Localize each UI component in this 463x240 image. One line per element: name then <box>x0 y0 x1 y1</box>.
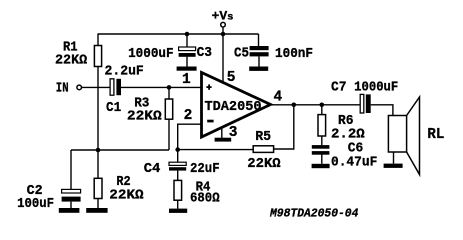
resistor R5 <box>253 146 273 153</box>
capacitor C6 <box>312 145 330 155</box>
node junction C3 on rail <box>185 32 190 37</box>
wire pin3 stub <box>221 125 223 138</box>
svg-text:C7: C7 <box>331 80 347 96</box>
resistor R4 <box>174 180 182 200</box>
svg-text:1000uF: 1000uF <box>354 80 398 96</box>
wire pin2 to feedback node <box>178 124 202 149</box>
wire R2 branch <box>97 150 99 178</box>
svg-text:100uF: 100uF <box>17 196 54 212</box>
resistor R2 <box>94 178 102 198</box>
node junction bias R1/R2 <box>96 148 101 153</box>
svg-text:4: 4 <box>274 90 283 106</box>
node junction C1/R3/pin1 <box>167 85 172 90</box>
speaker RL box <box>388 116 406 153</box>
svg-text:RL: RL <box>427 126 444 143</box>
capacitor C3 <box>179 47 196 57</box>
wire R2 to ground <box>97 199 99 209</box>
wire C5 branch from rail <box>258 34 260 46</box>
wire C3 branch vertical <box>186 34 188 47</box>
wire R5 right to output node <box>274 105 294 149</box>
ground below C2 <box>59 208 80 213</box>
svg-text:C4: C4 <box>144 161 161 177</box>
capacitor C4 <box>169 162 186 170</box>
ground pin3 <box>215 138 232 142</box>
svg-text:M98TDA2050-04: M98TDA2050-04 <box>269 207 358 221</box>
ground below C5 <box>249 67 268 71</box>
wire feedback node to R5 <box>178 149 254 151</box>
svg-text:1000uF: 1000uF <box>128 46 174 62</box>
svg-text:1: 1 <box>182 72 191 88</box>
svg-text:C5: C5 <box>234 45 249 61</box>
svg-text:0.47uF: 0.47uF <box>331 154 377 170</box>
wire R1 top <box>97 34 99 46</box>
svg-text:22KΩ: 22KΩ <box>55 53 88 69</box>
wire R3 top stub <box>168 87 170 99</box>
svg-text:2: 2 <box>184 108 193 124</box>
wire C3 to ground <box>186 57 188 67</box>
op-amp minus input marker <box>207 120 213 123</box>
svg-text:TDA2050: TDA2050 <box>205 100 262 115</box>
wire bias node horizontal <box>71 149 169 151</box>
svg-text:680Ω: 680Ω <box>190 191 220 207</box>
wire R6 to C6 <box>321 136 323 145</box>
svg-text:+Vs: +Vs <box>212 8 234 23</box>
svg-text:C1: C1 <box>106 100 121 116</box>
terminal IN <box>77 85 82 90</box>
svg-text:2.2uF: 2.2uF <box>105 64 144 80</box>
wire R4 to ground <box>177 200 179 209</box>
op-amp U1 TDA2050 <box>202 73 271 138</box>
ground below C6 <box>312 164 330 168</box>
svg-text:22KΩ: 22KΩ <box>247 156 281 172</box>
wire +Vs stub <box>222 27 224 34</box>
wire feedback node down to C4 <box>177 150 179 163</box>
ground below speaker <box>384 164 403 168</box>
wire C2 to ground <box>70 202 72 209</box>
wire C6 to ground <box>321 154 323 163</box>
op-amp plus input marker <box>206 84 211 89</box>
wire C2 branch <box>70 150 72 189</box>
capacitor C5 <box>250 46 269 56</box>
wire C4 to R4 <box>177 171 179 181</box>
svg-text:100nF: 100nF <box>275 46 313 62</box>
node junction pin2/C4/R5 <box>175 147 180 152</box>
svg-text:5: 5 <box>227 70 236 86</box>
resistor R6 <box>318 115 326 136</box>
wire C7 to speaker <box>371 105 393 116</box>
wire output horizontal <box>268 104 360 106</box>
terminal +Vs <box>221 22 226 27</box>
wire C1 to op-amp pin1 <box>121 86 202 88</box>
wire C5 to ground <box>258 56 260 66</box>
node junction at +Vs on rail <box>221 32 226 37</box>
resistor R3 <box>165 99 172 119</box>
speaker RL horn <box>407 97 420 175</box>
resistor R1 <box>94 46 101 67</box>
svg-text:22uF: 22uF <box>190 161 220 177</box>
ground below C3 <box>177 67 197 71</box>
svg-text:C3: C3 <box>197 45 212 61</box>
wire speaker to ground <box>393 152 395 164</box>
wire IN to C1 <box>82 86 111 88</box>
node junction output/R6 <box>320 103 325 108</box>
ground below R4 <box>169 209 187 213</box>
capacitor C1 <box>110 79 121 95</box>
capacitor C2 <box>62 189 81 201</box>
capacitor C7 <box>360 94 370 113</box>
wire R1 bottom to bias node (crosses IN line) <box>97 67 99 151</box>
svg-text:22KΩ: 22KΩ <box>127 109 162 125</box>
svg-text:22KΩ: 22KΩ <box>109 188 144 204</box>
wire R3 bottom <box>168 119 170 150</box>
svg-text:IN: IN <box>56 80 69 96</box>
wire output node to R6 <box>321 105 323 115</box>
node junction output/R5 <box>292 103 297 108</box>
svg-text:R5: R5 <box>255 129 271 145</box>
wire pin5 vertical <box>222 34 224 83</box>
wire top supply rail <box>98 33 259 35</box>
svg-text:3: 3 <box>229 125 238 141</box>
ground below R2 <box>86 208 107 213</box>
